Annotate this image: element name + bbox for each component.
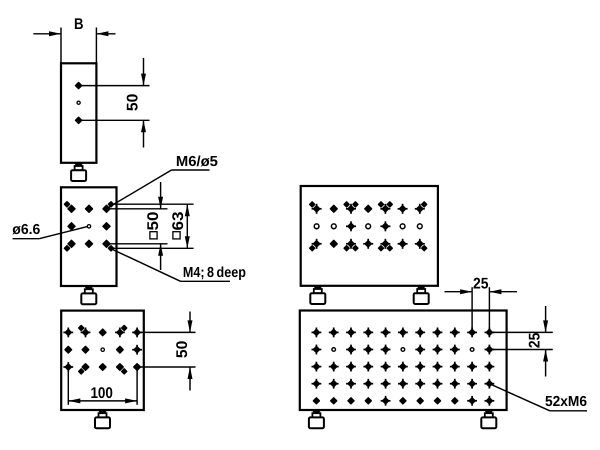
block4 hole grid 7x3 xyxy=(312,204,425,249)
block2 M6 hole grid 3x3 xyxy=(68,205,110,247)
svg-text:100: 100 xyxy=(90,385,113,402)
label M4 8deep text xyxy=(183,265,246,281)
block5 dim 25 right label xyxy=(527,332,544,348)
svg-text:50: 50 xyxy=(125,94,142,112)
label 52xM6 text xyxy=(545,394,587,410)
block2 dim square50 label xyxy=(145,212,162,239)
block5 dim 25 top arrows xyxy=(445,289,518,294)
block3 outline xyxy=(61,311,144,410)
dimension B label xyxy=(74,16,84,33)
label O6.6 text xyxy=(12,222,40,238)
block2 center hole Ø6.6 xyxy=(87,225,90,228)
svg-text:25: 25 xyxy=(527,332,544,348)
label M4 8deep leader xyxy=(111,249,231,282)
block3 M4 offset holes xyxy=(79,326,127,374)
block2 dim 50 extension lines xyxy=(107,209,168,244)
svg-text:B: B xyxy=(74,16,84,33)
block3 M6 hole grid 5x3 xyxy=(63,328,142,372)
block3 center hole xyxy=(101,348,104,351)
block1 dim 50 extension lines xyxy=(79,86,150,121)
block5 dim 25 right extension lines xyxy=(489,332,552,349)
svg-text:M6/ø5: M6/ø5 xyxy=(176,154,218,170)
svg-text:25: 25 xyxy=(473,275,489,292)
block4 M4 offset holes xyxy=(310,202,427,251)
block1 outline xyxy=(61,63,96,163)
block3 foot xyxy=(95,410,110,428)
block1 hole H3 M6 xyxy=(76,117,82,123)
dimension B extension lines xyxy=(61,28,96,64)
block2 dim square63 label xyxy=(170,211,187,239)
block5 dim 25 top label xyxy=(473,275,489,292)
svg-text:52xM6: 52xM6 xyxy=(545,394,587,410)
label M6/O5 text xyxy=(176,154,218,170)
block2 dim 63 line xyxy=(185,204,190,248)
label M6/O5 leader xyxy=(107,170,210,208)
block1 hole H1 M6 xyxy=(76,83,82,89)
block4 left foot xyxy=(310,286,325,304)
block5 dim 25 top extension lines xyxy=(472,287,489,332)
block5 left foot xyxy=(309,410,324,428)
block2 dim 63 extension lines xyxy=(111,204,194,248)
svg-text:50: 50 xyxy=(174,341,191,359)
block1 foot xyxy=(71,163,86,181)
block5 outline xyxy=(300,311,507,411)
label 52xM6 leader xyxy=(489,384,587,411)
block4 right foot xyxy=(414,286,429,304)
block2 M4 corner holes xyxy=(65,202,114,251)
block2 foot xyxy=(81,286,96,304)
block3 dim 100 extension lines xyxy=(68,368,137,405)
block1 hole H2 through xyxy=(77,101,80,104)
block3 dim 100 label xyxy=(90,385,113,402)
svg-text:M4; 8 deep: M4; 8 deep xyxy=(183,265,246,281)
svg-text:50: 50 xyxy=(145,212,162,231)
block2 outline xyxy=(61,187,117,286)
block5 M6 hole grid 11x5 xyxy=(312,328,495,406)
block5 right foot xyxy=(481,410,496,428)
block3 dim 50 label xyxy=(174,341,191,359)
block3 dim 100 line xyxy=(68,398,137,403)
block2 dim 50 arrows xyxy=(158,182,163,270)
block3 dim 50 arrows xyxy=(188,312,193,391)
block4 outline xyxy=(301,186,438,286)
label O6.6 leader xyxy=(13,227,88,239)
block5 dim 25 right arrows xyxy=(543,306,548,377)
block3 dim 50 extension lines xyxy=(138,332,196,367)
dimension B line with arrows xyxy=(33,31,115,36)
svg-text:63: 63 xyxy=(170,211,187,230)
svg-text:ø6.6: ø6.6 xyxy=(12,222,40,238)
block1 dim 50 label xyxy=(125,94,142,112)
block1 dim 50 arrows xyxy=(141,58,146,148)
